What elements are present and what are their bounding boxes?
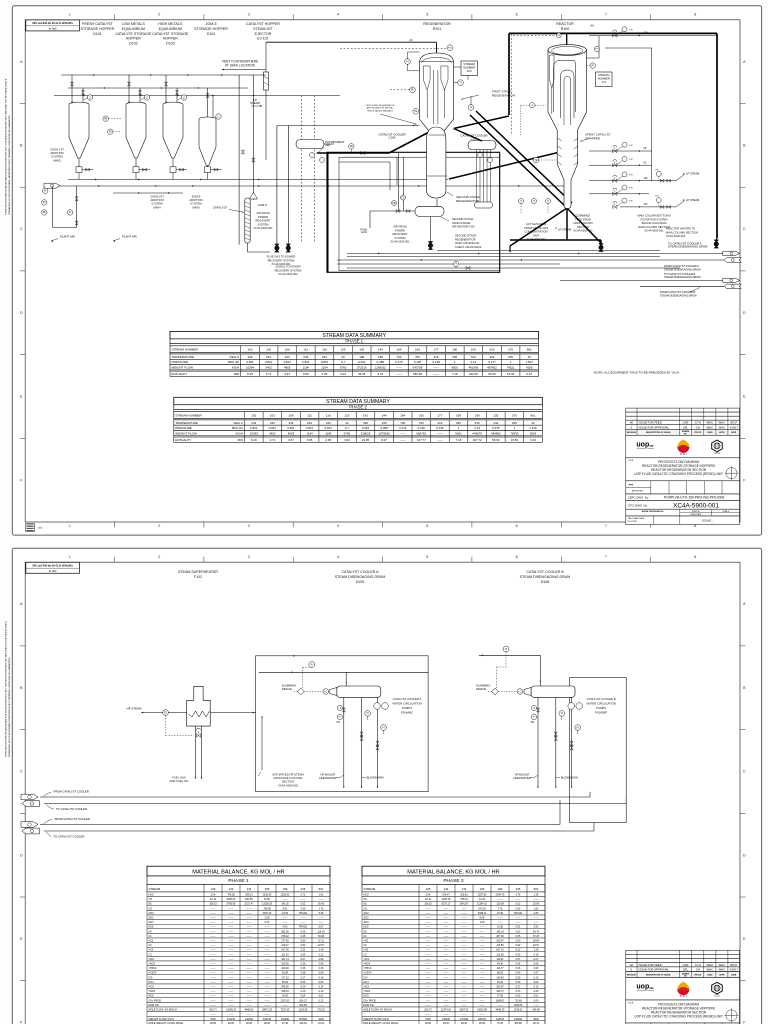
svg-text:194.99: 194.99 (532, 1009, 540, 1012)
svg-text:------: ------ (426, 926, 431, 929)
svg-text:5760: 5760 (344, 431, 351, 435)
svg-text:0.27: 0.27 (516, 986, 521, 989)
svg-text:112: 112 (303, 348, 308, 352)
svg-text:8.29: 8.29 (251, 438, 257, 442)
svg-text:=IC5: =IC5 (364, 986, 370, 989)
svg-text:PHASE 2: PHASE 2 (443, 878, 464, 884)
svg-text:29.35: 29.35 (358, 372, 366, 376)
instrument FI pumps A (365, 711, 371, 717)
svg-text:14251.58: 14251.58 (477, 1009, 488, 1012)
svg-text:------: ------ (247, 907, 252, 910)
svg-text:0.179: 0.179 (395, 360, 403, 364)
svg-text:------: ------ (462, 953, 467, 956)
instrument FC B (531, 705, 536, 710)
svg-text:164: 164 (396, 348, 401, 352)
grid row labels (20, 60, 746, 483)
svg-text:65.29: 65.29 (488, 372, 496, 376)
svg-text:REVISION: REVISION (627, 432, 637, 434)
reactor stripper chevrons (558, 138, 579, 141)
svg-text:------: ------ (283, 917, 288, 920)
svg-text:NC4: NC4 (149, 981, 155, 984)
svg-text:------: ------ (301, 921, 306, 924)
svg-text:------: ------ (247, 944, 252, 947)
svg-text:BLOWDOWN: BLOWDOWN (367, 776, 384, 780)
bottom-left stamp (26, 524, 35, 532)
svg-text:------: ------ (426, 1013, 431, 1016)
svg-text:------: ------ (426, 976, 431, 979)
svg-text:121.42: 121.42 (281, 953, 289, 956)
svg-text:1024.65: 1024.65 (514, 1004, 523, 1007)
svg-text:1269032: 1269032 (375, 366, 387, 370)
pennant from catalyst cooler 1 (21, 794, 38, 800)
svg-text:------: ------ (211, 917, 216, 920)
wire to catalyst cooler line 2 (44, 803, 626, 805)
svg-text:WORK PACKAGE No.: WORK PACKAGE No. (642, 510, 665, 513)
svg-text:AIR DISTRIBUTOR SPECIAL: AIR DISTRIBUTOR SPECIAL (367, 107, 394, 110)
svg-text:------: ------ (426, 995, 431, 998)
reactor side instrument rows (589, 27, 717, 209)
svg-text:SO3: SO3 (364, 921, 370, 924)
svg-text:OPERATIONS. DO NOT NECESSARILY: OPERATIONS. DO NOT NECESSARILY REPRESENT… (8, 657, 11, 757)
svg-text:------: ------ (426, 990, 431, 993)
svg-text:4605: 4605 (284, 366, 291, 370)
svg-text:ISSUE FOR FEED: ISSUE FOR FEED (639, 963, 662, 967)
svg-text:4.00: 4.00 (283, 926, 288, 929)
svg-text:------: ------ (426, 944, 431, 947)
svg-text:STEAM: STEAM (250, 101, 260, 105)
svg-text:370: 370 (512, 414, 517, 418)
svg-text:POWER: POWER (395, 228, 405, 232)
svg-text:CEPC DWG. No.: CEPC DWG. No. (628, 496, 650, 500)
svg-text:------: ------ (229, 958, 234, 961)
svg-text:37.11: 37.11 (318, 940, 324, 943)
svg-text:LP STEAM: LP STEAM (686, 198, 700, 202)
svg-text:0.08: 0.08 (319, 972, 324, 975)
svg-text:D101: D101 (93, 32, 102, 36)
svg-text:------: ------ (265, 963, 270, 966)
svg-text:XC4A-6000-001: XC4A-6000-001 (573, 229, 593, 233)
table STREAM DATA SUMMARY PHASE 2 (174, 397, 543, 442)
svg-text:WHC: WHC (719, 963, 726, 967)
svg-text:0.14: 0.14 (319, 986, 324, 989)
svg-text:------: ------ (247, 995, 252, 998)
svg-text:RECOVERY: RECOVERY (392, 232, 407, 236)
svg-text:PRESSURE: PRESSURE (175, 426, 192, 430)
svg-text:RAW OIL: RAW OIL (149, 1004, 160, 1007)
svg-text:7: 7 (605, 13, 607, 17)
svg-text:=C2: =C2 (149, 940, 154, 943)
svg-text:LOW METALS: LOW METALS (122, 22, 146, 26)
svg-text:------: ------ (516, 898, 521, 901)
svg-text:------: ------ (462, 986, 467, 989)
svg-text:UOP FLUID CATALYTIC CRACKING P: UOP FLUID CATALYTIC CRACKING PROCESS (RE… (634, 472, 723, 476)
svg-text:GAS: GAS (361, 230, 367, 234)
svg-text:0.08: 0.08 (534, 990, 539, 993)
svg-text:------: ------ (480, 990, 485, 993)
svg-text:4603: 4603 (288, 431, 295, 435)
svg-text:1194: 1194 (321, 366, 328, 370)
svg-text:165: 165 (480, 887, 485, 891)
svg-text:CONCENTRATION: CONCENTRATION (524, 230, 547, 234)
svg-text:1079636: 1079636 (378, 431, 390, 435)
svg-text:198: 198 (359, 355, 364, 359)
svg-text:REACTOR VAPORS TO: REACTOR VAPORS TO (666, 227, 695, 231)
svg-text:REGENERATOR: REGENERATOR (423, 22, 451, 26)
svg-text:CHKD: CHKD (707, 432, 713, 434)
power recovery device 2 (286, 244, 291, 253)
svg-text:3.53: 3.53 (534, 926, 539, 929)
svg-text:0.821: 0.821 (284, 360, 292, 364)
svg-text:FROM CATALYST COOLER B: FROM CATALYST COOLER B (660, 290, 696, 294)
svg-text:715.89: 715.89 (514, 999, 522, 1002)
svg-text:CO2: CO2 (149, 912, 155, 915)
svg-text:0.14: 0.14 (319, 976, 324, 979)
svg-text:4.65: 4.65 (534, 912, 539, 915)
svg-text:200.71: 200.71 (209, 1009, 217, 1012)
svg-text:UNSATURATE GAS: UNSATURATE GAS (524, 226, 548, 230)
svg-text:------: ------ (211, 999, 216, 1002)
svg-text:2GM-5: 2GM-5 (206, 22, 217, 26)
instrument LC drum B (517, 689, 523, 695)
svg-text:3.04: 3.04 (344, 438, 350, 442)
svg-text:0.78: 0.78 (516, 894, 521, 897)
svg-text:REGENERATOR: REGENERATOR (492, 93, 516, 97)
svg-text:0.09: 0.09 (534, 999, 539, 1002)
svg-text:------: ------ (462, 907, 467, 910)
svg-text:156.53: 156.53 (209, 903, 217, 906)
svg-text:57.25: 57.25 (533, 935, 540, 938)
power recovery device 5 (714, 240, 719, 249)
svg-text:STEAM DISENGAGING DRUM: STEAM DISENGAGING DRUM (664, 275, 700, 279)
svg-text:TEMPERATURE: TEMPERATURE (175, 421, 197, 425)
svg-text:CATALYST: CATALYST (213, 206, 228, 210)
svg-text:0.821: 0.821 (269, 426, 277, 430)
catalyst cooler A enclosure (256, 656, 429, 792)
svg-text:370: 370 (644, 203, 649, 206)
svg-text:1194: 1194 (303, 366, 310, 370)
svg-text:=IC4: =IC4 (364, 958, 370, 961)
svg-text:------: ------ (480, 999, 485, 1002)
svg-text:STORAGE HOPPER: STORAGE HOPPER (81, 27, 115, 31)
svg-text:------: ------ (462, 935, 467, 938)
svg-text:4209: 4209 (318, 1018, 324, 1021)
svg-text:STEAM DISENGAGING DRUM: STEAM DISENGAGING DRUM (520, 575, 571, 579)
svg-text:675.47: 675.47 (442, 894, 450, 897)
svg-text:------: ------ (211, 995, 216, 998)
svg-text:0.165: 0.165 (418, 426, 426, 430)
svg-text:AIR: AIR (326, 143, 331, 147)
svg-text:TI: TI (459, 82, 461, 84)
svg-text:------: ------ (426, 972, 431, 975)
svg-text:------: ------ (462, 921, 467, 924)
svg-text:0.821: 0.821 (306, 426, 314, 430)
wire drum B steam outlet (479, 654, 541, 656)
svg-text:200.71: 200.71 (424, 1009, 432, 1012)
svg-text:CATALYST HOPPER: CATALYST HOPPER (246, 22, 280, 26)
svg-text:0.07: 0.07 (516, 958, 521, 961)
svg-text:74521: 74521 (507, 366, 515, 370)
svg-text:=NC5: =NC5 (149, 990, 156, 993)
svg-text:------: ------ (211, 926, 216, 929)
svg-text:STEAM JET: STEAM JET (253, 27, 274, 31)
svg-text:100.30: 100.30 (281, 963, 289, 966)
svg-text:------: ------ (462, 967, 467, 970)
svg-text:0.02: 0.02 (516, 944, 521, 947)
cooler pump bubbles (310, 153, 315, 158)
svg-text:40: 40 (341, 355, 345, 359)
svg-text:------: ------ (211, 976, 216, 979)
svg-text:=TBC4: =TBC4 (149, 967, 157, 970)
svg-text:434692: 434692 (491, 431, 501, 435)
svg-text:CH: CH (696, 425, 700, 429)
svg-text:------: ------ (265, 940, 270, 943)
svg-text:2.71: 2.71 (266, 372, 272, 376)
svg-text:CYH: CYH (695, 963, 701, 967)
svg-text:0.13: 0.13 (534, 986, 539, 989)
svg-text:23.36: 23.36 (497, 912, 504, 915)
svg-text:PRESSURE: PRESSURE (172, 360, 189, 364)
svg-text:137.77: 137.77 (417, 438, 426, 442)
svg-text:------: ------ (462, 990, 467, 993)
svg-text:110.51: 110.51 (496, 958, 504, 961)
svg-text:165: 165 (415, 348, 420, 352)
svg-text:------: ------ (229, 935, 234, 938)
svg-text:------: ------ (283, 1004, 288, 1007)
svg-text:SECOND STAGE: SECOND STAGE (452, 217, 473, 221)
svg-text:13158.29: 13158.29 (262, 903, 273, 906)
svg-text:27.06: 27.06 (497, 995, 504, 998)
svg-text:ENTHALPY: ENTHALPY (172, 372, 188, 376)
svg-text:0.22: 0.22 (516, 949, 521, 952)
svg-text:------: ------ (426, 958, 431, 961)
vessel reactor R100 (548, 50, 587, 209)
svg-text:FE: FE (350, 146, 353, 148)
svg-text:FI: FI (69, 212, 71, 214)
svg-text:------: ------ (462, 940, 467, 943)
svg-text:NOTE: ALL EQUIPMENT TAGS TO BE: NOTE: ALL EQUIPMENT TAGS TO BE PRECEDED … (594, 371, 681, 375)
svg-text:TRACE: TRACE (299, 926, 308, 929)
svg-text:------: ------ (426, 940, 431, 943)
svg-text:101.74: 101.74 (281, 958, 289, 961)
svg-text:0.7: 0.7 (341, 360, 345, 364)
svg-text:11264.10: 11264.10 (477, 903, 487, 906)
svg-text:0.95: 0.95 (303, 372, 309, 376)
svg-text:0.06: 0.06 (516, 963, 521, 966)
svg-text:------: ------ (229, 986, 234, 989)
svg-text:245.05: 245.05 (281, 986, 289, 989)
svg-text:0.13: 0.13 (474, 426, 480, 430)
svg-text:881.86: 881.86 (245, 898, 253, 901)
svg-text:FRESH CATALYST: FRESH CATALYST (82, 22, 114, 26)
svg-text:------: ------ (229, 981, 234, 984)
svg-text:=IC5: =IC5 (149, 986, 155, 989)
svg-text:177.82: 177.82 (281, 940, 289, 943)
instrument bubbles regenerator right (458, 80, 464, 86)
furnace steam superheater F102 (187, 686, 211, 726)
svg-text:NC5: NC5 (149, 995, 155, 998)
svg-text:243: 243 (266, 355, 271, 359)
svg-text:125: 125 (426, 887, 431, 891)
svg-text:AIR HEATER F101: AIR HEATER F101 (452, 225, 475, 229)
svg-text:------: ------ (462, 1013, 467, 1016)
svg-text:------: ------ (211, 944, 216, 947)
svg-text:XC4A-6000-002: XC4A-6000-002 (278, 783, 299, 787)
wire ejector standpipes (238, 75, 240, 245)
svg-text:------: ------ (265, 949, 270, 952)
svg-text:CO: CO (149, 907, 153, 910)
svg-text:0.05: 0.05 (301, 930, 306, 933)
sheet border (12, 6, 761, 535)
svg-text:FLUE GAS TO POWER: FLUE GAS TO POWER (267, 255, 296, 259)
svg-text:235.81: 235.81 (460, 894, 468, 897)
svg-text:H2S: H2S (364, 926, 369, 929)
svg-text:=C2: =C2 (364, 940, 369, 943)
svg-text:4/19/17: 4/19/17 (730, 426, 739, 429)
svg-text:165: 165 (265, 887, 270, 891)
instrument FI top A (309, 662, 315, 668)
svg-text:0.08: 0.08 (319, 963, 324, 966)
bold feed riser (566, 207, 568, 240)
svg-text:NC4: NC4 (364, 981, 370, 984)
svg-text:0.03: 0.03 (516, 940, 521, 943)
svg-text:FIC: FIC (630, 29, 634, 31)
svg-text:------: ------ (480, 976, 485, 979)
svg-text:------: ------ (319, 898, 324, 901)
svg-text:PHASE 1: PHASE 1 (345, 339, 363, 344)
svg-text:------: ------ (444, 990, 449, 993)
svg-text:7227.65: 7227.65 (281, 1009, 290, 1012)
svg-text:3402: 3402 (265, 366, 272, 370)
svg-text:IC4: IC4 (149, 976, 154, 979)
svg-text:8: 8 (694, 13, 696, 17)
svg-text:0.05: 0.05 (319, 981, 324, 984)
table STREAM DATA SUMMARY PHASE 1 (170, 331, 539, 376)
svg-text:=C3: =C3 (149, 949, 154, 952)
svg-text:0.05: 0.05 (516, 907, 521, 910)
svg-text:APPD: APPD (719, 973, 725, 976)
svg-text:PHASE 2: PHASE 2 (349, 405, 367, 410)
svg-text:A0: A0 (630, 963, 634, 967)
svg-text:15.50: 15.50 (511, 438, 519, 442)
svg-text:0.07: 0.07 (534, 972, 539, 975)
svg-text:253.67: 253.67 (496, 986, 504, 989)
svg-text:PC: PC (43, 202, 47, 204)
svg-text:3.04: 3.04 (340, 372, 346, 376)
svg-text:100: 100 (644, 32, 649, 35)
svg-text:------: ------ (462, 917, 467, 920)
svg-text:GRID FLANGE: GRID FLANGE (452, 221, 470, 225)
svg-text:------: ------ (265, 944, 270, 947)
grid row labels (20, 602, 746, 1024)
svg-text:------: ------ (265, 999, 270, 1002)
svg-text:MOLE FLOW, KG MOL/H: MOLE FLOW, KG MOL/H (149, 1009, 178, 1012)
svg-text:XC4A-6000-002: XC4A-6000-002 (526, 237, 546, 241)
svg-text:------: ------ (229, 917, 234, 920)
regenerator cyclone 2 (441, 66, 448, 118)
svg-text:661: 661 (527, 348, 532, 352)
svg-text:NC5: NC5 (364, 995, 370, 998)
svg-text:WHC: WHC (706, 425, 713, 429)
svg-text:0.05: 0.05 (516, 935, 521, 938)
svg-text:------: ------ (265, 935, 270, 938)
drawing frame (25, 20, 740, 522)
svg-text:0.821: 0.821 (302, 360, 310, 364)
svg-text:86.02: 86.02 (497, 972, 504, 975)
svg-text:WEIGHT FLOW: WEIGHT FLOW (175, 431, 197, 435)
wire from catalyst cooler line 1 (40, 796, 590, 798)
svg-text:1.00: 1.00 (480, 921, 485, 924)
svg-text:0.821: 0.821 (287, 426, 295, 430)
svg-text:------: ------ (229, 912, 234, 915)
svg-text:------: ------ (211, 1004, 216, 1007)
svg-text:------: ------ (498, 917, 503, 920)
svg-text:6: 6 (516, 555, 518, 559)
svg-text:------: ------ (462, 981, 467, 984)
svg-text:8/9/17: 8/9/17 (730, 964, 738, 967)
svg-text:2023.62: 2023.62 (281, 894, 290, 897)
svg-text:2034.75: 2034.75 (496, 894, 505, 897)
dashed instrument run reactor (511, 34, 513, 135)
svg-text:STREAM: STREAM (149, 887, 161, 891)
svg-text:0.252: 0.252 (358, 360, 366, 364)
instrument LC drum A (323, 689, 329, 695)
steam disengaging drum D106 (531, 686, 575, 697)
svg-text:316: 316 (434, 355, 439, 359)
svg-text:16.50: 16.50 (264, 898, 271, 901)
svg-text:125: 125 (341, 348, 346, 352)
svg-text:76539: 76539 (510, 431, 518, 435)
svg-text:FIC: FIC (656, 170, 660, 172)
svg-text:SFL: SFL (683, 425, 689, 429)
svg-text:------: ------ (229, 949, 234, 952)
svg-text:5: 5 (426, 555, 428, 559)
svg-text:D: D (20, 853, 23, 857)
svg-text:------: ------ (211, 921, 216, 924)
svg-text:3.67: 3.67 (284, 372, 290, 376)
svg-text:7.18: 7.18 (452, 372, 458, 376)
svg-text:103: 103 (270, 414, 275, 418)
svg-text:------: ------ (480, 949, 485, 952)
svg-text:1194: 1194 (306, 431, 313, 435)
svg-text:0.38: 0.38 (301, 963, 306, 966)
svg-text:CHECK VALVES MA04(A-D): CHECK VALVES MA04(A-D) (367, 109, 393, 112)
svg-text:FROM CATALYST COOLER A: FROM CATALYST COOLER A (664, 264, 699, 268)
svg-text:14.13: 14.13 (479, 898, 486, 901)
svg-text:9.34: 9.34 (377, 372, 383, 376)
svg-text:------: ------ (247, 999, 252, 1002)
wire furnace stack (194, 726, 196, 779)
svg-text:1: 1 (69, 13, 71, 17)
svg-text:------: ------ (480, 1004, 485, 1007)
svg-text:FEEDWATER: FEEDWATER (513, 776, 530, 780)
instrument PE bubble (103, 116, 108, 121)
svg-text:102: 102 (251, 414, 256, 418)
instrument LI bubbles at hoppers (87, 95, 92, 100)
svg-text:2841.87: 2841.87 (460, 903, 469, 906)
wire regenerator air supply (277, 125, 420, 127)
svg-text:661: 661 (534, 887, 539, 891)
svg-text:2GM-5: 2GM-5 (258, 203, 267, 207)
svg-text:------: ------ (229, 953, 234, 956)
svg-text:2017.63: 2017.63 (281, 999, 290, 1002)
vessel hopper D101 (69, 102, 89, 158)
revision reference box (26, 20, 80, 31)
svg-text:FIC: FIC (630, 159, 634, 161)
svg-text:0.06: 0.06 (534, 967, 539, 970)
svg-text:------: ------ (426, 1004, 431, 1007)
svg-text:------: ------ (444, 940, 449, 943)
svg-text:56.38: 56.38 (318, 935, 325, 938)
